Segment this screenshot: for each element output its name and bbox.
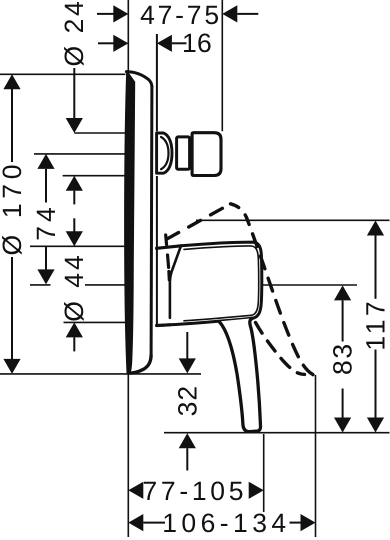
dimension Ø170 arrow up bbox=[3, 74, 20, 89]
dimension 16 right arrow bbox=[157, 35, 172, 52]
extension line E6 (Ø44 top, y246.3) bbox=[30, 245, 126, 247]
dimension 32 arrow up (outside, below E11) bbox=[179, 433, 196, 448]
extension line V2b (wall line lower) bbox=[156, 176, 158, 326]
dimension 106-134 left leader bbox=[143, 522, 165, 524]
svg-text:77-105: 77-105 bbox=[142, 476, 247, 506]
extension line E10 (Ø170 bottom / 32 top, y373.9) bbox=[0, 373, 201, 375]
handle hub inner top line bbox=[184, 246, 251, 249]
handle hub left notch edge bbox=[170, 246, 181, 317]
svg-text:Ø 170: Ø 170 bbox=[0, 160, 27, 256]
dimension 106-134 left arrow bbox=[128, 514, 143, 531]
dimension Ø170 arrow down bbox=[3, 359, 20, 374]
extension line E1 (Ø170 top, y74.3) bbox=[0, 73, 126, 75]
dimension 16 left arrow bbox=[113, 35, 128, 52]
extension line E9 (Ø44 bottom, y322.4) bbox=[64, 321, 127, 323]
svg-text:117: 117 bbox=[361, 298, 390, 351]
escutcheon plate back edge bbox=[150, 87, 154, 356]
svg-text:Ø 24: Ø 24 bbox=[59, 0, 89, 67]
valve bell escutcheon outline bbox=[157, 133, 172, 173]
handle hub body bbox=[162, 242, 262, 325]
extension line E4 (Ø24 bottom, y175.7) bbox=[63, 175, 126, 177]
dimension 106-134 right arrow bbox=[301, 514, 316, 531]
dimension 77-105 left arrow bbox=[128, 482, 143, 499]
extension line V5 (77-105 right, x263.7) bbox=[263, 434, 265, 512]
svg-text:Ø 44: Ø 44 bbox=[59, 252, 89, 321]
dimension Ø24 arrow down (outside, above E2) bbox=[66, 118, 83, 133]
handle hub inner bottom line bbox=[184, 315, 251, 321]
dimension 47-75 left arrow bbox=[113, 5, 128, 22]
escutcheon plate top edge bbox=[126, 72, 151, 87]
extension line V1 (47-75/16 left, x128.3) bbox=[127, 0, 129, 71]
dimension 32 upper stem bbox=[186, 332, 188, 359]
extension line E2 (Ø24 top, y133) bbox=[74, 132, 126, 134]
svg-text:83: 83 bbox=[328, 342, 358, 375]
svg-text:47-75: 47-75 bbox=[140, 0, 222, 30]
dimension 16 right stem bbox=[172, 42, 187, 44]
dimension 117 line bbox=[375, 236, 377, 299]
extension line E5 (117 top, y220.3) bbox=[196, 219, 390, 221]
dimension 16 left stem bbox=[98, 42, 114, 44]
dimension Ø24 arrow up (outside, below E4) bbox=[66, 176, 83, 191]
dimension Ø44 lower stem bbox=[73, 337, 75, 351]
extension line E3 (74 top / fitting axis, y153.9) bbox=[34, 153, 126, 155]
extension line V3 (47-75 right, x222.3) bbox=[221, 0, 223, 131]
escutcheon plate bottom edge bbox=[129, 356, 151, 374]
valve bell inner arc bbox=[161, 137, 169, 169]
dimension 106-134 right leader bbox=[290, 522, 301, 524]
dimension Ø170 line bbox=[11, 89, 13, 162]
extension line E8b (handle axis left segment 2) bbox=[85, 284, 126, 286]
dimension 32 lower stem bbox=[186, 448, 188, 470]
handle hub bottom bar to wall bbox=[157, 323, 170, 327]
extension line V4 (77-105/106-134 left, x128.3) bbox=[127, 374, 129, 537]
extension line E11 (117/83/32 bottom, y432.7) bbox=[164, 432, 390, 434]
dimension 74 line bbox=[45, 169, 47, 203]
dashed handle cap corner (alternate position) bbox=[231, 204, 247, 218]
escutcheon plate front crescent (filled) bbox=[125, 71, 135, 373]
dimension 117 arrow down bbox=[367, 418, 384, 433]
dimension 47-75 right arrow bbox=[222, 5, 237, 22]
dimension 74 arrow up bbox=[37, 154, 54, 169]
extension line V6 (106-134 right, x315.5) bbox=[315, 375, 317, 537]
handle hub top bar to wall bbox=[157, 246, 181, 249]
dimension 47-75 right stem bbox=[237, 13, 258, 15]
dimension 47-75 left stem bbox=[97, 13, 114, 15]
dimension Ø24 lower stem bbox=[73, 191, 75, 205]
dimension 74 arrow down bbox=[37, 269, 54, 284]
dimension 32 arrow down (outside, above E10) bbox=[179, 358, 196, 373]
valve cap (stop ring) bbox=[192, 133, 221, 176]
svg-text:32: 32 bbox=[172, 385, 202, 416]
svg-text:106-134: 106-134 bbox=[162, 508, 290, 538]
extension line E8a (handle axis left segment) bbox=[30, 284, 51, 286]
extension line V2a (wall line upper, x156.9) bbox=[156, 34, 158, 131]
dashed hub left edge (alternate position) bbox=[166, 235, 170, 280]
svg-text:74: 74 bbox=[31, 203, 61, 240]
dimension 83 arrow down bbox=[334, 418, 351, 433]
dimension Ø44 arrow up (outside, below E9) bbox=[66, 322, 83, 337]
svg-text:16: 16 bbox=[182, 28, 212, 58]
dimension 83 arrow up bbox=[334, 285, 351, 300]
handle hub inner right arc bbox=[251, 246, 258, 315]
dimension Ø24 line upper bbox=[73, 68, 75, 119]
dimension Ø44 arrow down (outside, above E6) bbox=[66, 231, 83, 246]
handle lever (filled white) bbox=[219, 318, 261, 431]
dimension 117 arrow up bbox=[367, 221, 384, 236]
dashed lever outer edge (alternate position) bbox=[247, 218, 315, 377]
dashed handle top edge (alternate position) bbox=[166, 204, 231, 240]
dimension 83 line bbox=[342, 300, 344, 341]
dimension Ø44 upper stem bbox=[73, 218, 75, 232]
valve stem cylinder bbox=[177, 137, 190, 169]
extension line E7 (handle axis right, y285) bbox=[250, 284, 357, 286]
dashed lever inner edge (alternate position) bbox=[256, 323, 305, 375]
dimension 77-105 right arrow bbox=[249, 482, 264, 499]
